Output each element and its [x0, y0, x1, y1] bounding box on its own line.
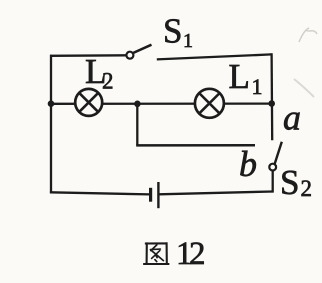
faint scribble right-mid: [294, 79, 314, 97]
wire right vertical (corner to terminal a): [270, 53, 273, 140]
node left junction: [48, 100, 55, 107]
svg-text:2: 2: [102, 69, 114, 94]
switch S1 blade: [133, 45, 151, 53]
switch S2 pivot: [269, 164, 276, 171]
battery positive plate (long): [157, 182, 159, 208]
wire middle horizontal (through lamps row): [51, 102, 272, 105]
node middle junction: [134, 101, 141, 108]
svg-text:a: a: [283, 98, 301, 138]
wire branch vertical from middle node: [136, 104, 138, 145]
svg-text:1: 1: [252, 74, 263, 99]
switch S2 blade: [275, 142, 282, 164]
wire top-right (S1 to top-right corner): [157, 54, 272, 59]
wire bottom left (corner to battery): [50, 192, 150, 194]
wire top-left (from left corner to S1 pivot): [50, 54, 127, 57]
svg-text:b: b: [239, 144, 257, 184]
svg-text:S: S: [280, 163, 299, 202]
node right junction: [268, 100, 275, 107]
svg-text:2: 2: [189, 236, 206, 272]
faint scribble top-right: [299, 28, 317, 42]
lamp L2: [75, 89, 102, 116]
wire branch horizontal to terminal b: [136, 144, 255, 147]
svg-text:L: L: [229, 57, 250, 96]
lamp L1: [195, 89, 224, 118]
svg-text:2: 2: [301, 176, 313, 201]
battery negative plate (short): [149, 188, 152, 202]
wire right lower vertical (S2 pivot to bottom corner): [272, 170, 274, 193]
caption glyph 图 (drawn): [144, 243, 168, 264]
wire left vertical: [50, 55, 52, 194]
switch S1 pivot: [126, 52, 133, 59]
wire bottom right (battery to lower-right corner): [159, 192, 273, 195]
svg-text:1: 1: [183, 30, 193, 52]
svg-text:S: S: [163, 12, 182, 51]
